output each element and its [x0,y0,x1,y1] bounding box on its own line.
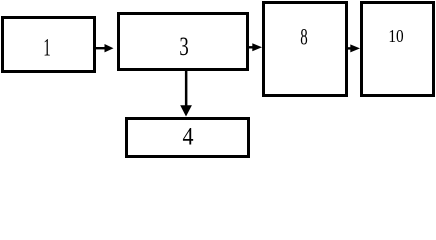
block 3 [117,12,249,71]
block 4 [125,117,250,158]
arrow from block 1 to block 3 [95,44,114,52]
arrow from block 8 to block 10 [347,44,360,52]
label 4 [182,124,193,149]
label 8 [300,26,307,49]
block 1 [1,16,96,73]
arrow from block 3 to block 8 [248,43,262,51]
label 1 [43,36,51,61]
block 8 [262,1,348,97]
block 10 [360,1,435,97]
label 3 [179,34,188,60]
label 10 [389,27,404,45]
arrow from block 3 down to block 4 [180,70,192,117]
